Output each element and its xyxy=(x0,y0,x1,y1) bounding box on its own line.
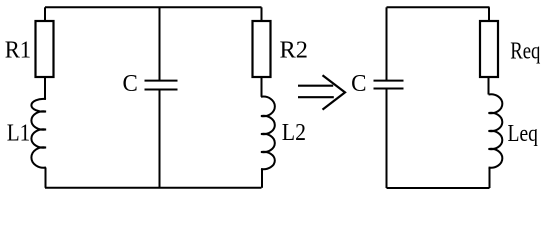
wire right branch right-circuit lower xyxy=(489,168,491,189)
svg-text:R2: R2 xyxy=(280,38,308,64)
svg-text:L1: L1 xyxy=(7,121,31,147)
svg-text:C: C xyxy=(123,71,138,97)
inductor Leq xyxy=(489,94,503,167)
wire left branch right-circuit lower xyxy=(386,89,388,189)
capacitor C right-circuit xyxy=(374,81,404,89)
svg-text:Req: Req xyxy=(510,39,540,65)
wire left branch right-circuit upper xyxy=(386,7,388,80)
svg-text:L2: L2 xyxy=(282,120,306,146)
svg-text:R1: R1 xyxy=(5,38,31,64)
wire middle branch upper xyxy=(159,7,161,80)
wire right branch upper xyxy=(261,7,263,21)
wire top left-circuit xyxy=(45,6,262,8)
arrow implies lower line xyxy=(298,96,334,98)
wire right branch right-circuit middle xyxy=(488,77,490,95)
inductor L1 xyxy=(31,99,46,168)
resistor R1 xyxy=(36,21,54,77)
wire left branch lower xyxy=(45,168,47,188)
inductor L2 xyxy=(261,97,275,170)
resistor Req xyxy=(480,21,498,77)
wire middle branch lower xyxy=(159,90,161,188)
resistor R2 xyxy=(253,21,271,77)
wire left branch upper xyxy=(44,7,46,21)
arrow implies chevron xyxy=(323,75,346,109)
capacitor C left-circuit xyxy=(145,81,178,90)
wire bottom right-circuit xyxy=(387,187,490,189)
svg-text:C: C xyxy=(351,71,366,97)
wire right branch right-circuit upper xyxy=(488,7,490,21)
wire bottom left-circuit xyxy=(45,187,262,189)
arrow implies upper line xyxy=(298,85,333,87)
wire left branch middle xyxy=(44,77,46,99)
wire right branch middle xyxy=(261,77,263,97)
wire top right-circuit xyxy=(387,6,490,8)
wire right branch lower xyxy=(261,169,263,188)
svg-text:Leq: Leq xyxy=(508,121,538,147)
